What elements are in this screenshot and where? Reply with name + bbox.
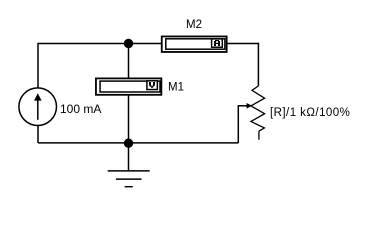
wire ground stem [128, 143, 130, 171]
potentiometer R bottom stub [258, 131, 260, 140]
svg-text:[R]/1 kΩ/100%: [R]/1 kΩ/100% [270, 107, 350, 119]
wire M1 vertical upper [128, 44, 130, 79]
junction node bottom (dot) [124, 139, 133, 148]
voltmeter M1 letter V [149, 82, 155, 88]
current source arrow [37, 100, 39, 120]
ground symbol line 3 [125, 186, 133, 188]
wire left vertical lower (source - to bottom node) [37, 126, 39, 143]
svg-text:M1: M1 [168, 81, 184, 93]
wire top-right horizontal (M2 out to R top) [227, 43, 259, 45]
voltmeter M1 letter box [147, 81, 157, 90]
voltmeter M1 outer box [96, 78, 161, 94]
potentiometer R zigzag [251, 86, 265, 131]
svg-text:100 mA: 100 mA [60, 102, 101, 116]
current source I1 circle [19, 88, 57, 126]
wire left vertical upper (source + to top node) [37, 43, 39, 88]
wire right vertical (to resistor top) [257, 43, 259, 86]
wire top-left horizontal (node between source, M1 top, M2 in) [38, 43, 161, 45]
ammeter M2 letter A [214, 40, 220, 46]
ground symbol line 2 [116, 178, 142, 180]
junction node top (dot) [124, 39, 133, 48]
potentiometer wiper arrowhead [247, 103, 253, 109]
wire M1 vertical lower [128, 95, 130, 143]
ground symbol line 1 [108, 170, 150, 172]
svg-text:M2: M2 [186, 19, 202, 31]
ammeter M2 outer box [162, 36, 227, 52]
wire bottom horizontal [38, 142, 238, 144]
wire wiper vertical [237, 106, 239, 143]
ammeter M2 letter box [212, 39, 223, 47]
voltmeter M1 inner box [100, 81, 160, 92]
ammeter M2 inner box [166, 39, 225, 49]
wire wiper horizontal [238, 105, 248, 107]
